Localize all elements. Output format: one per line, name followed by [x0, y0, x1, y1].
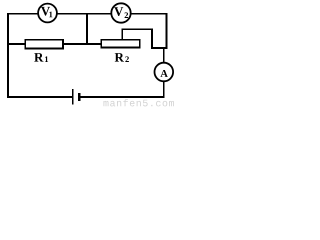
label R2: [115, 53, 124, 62]
wire right vertical top: [166, 13, 168, 49]
voltmeter U2 V2: [111, 3, 130, 22]
battery long plate: [72, 89, 74, 105]
wire left to R1: [8, 43, 25, 45]
wire left vertical: [7, 13, 9, 98]
label R1: [34, 53, 43, 62]
ammeter A: [155, 63, 174, 82]
battery short plate: [78, 93, 80, 101]
wire top-left from left edge to V1: [8, 13, 38, 15]
wire bottom left to battery: [8, 96, 72, 98]
wire ammeter to bottom: [163, 81, 165, 98]
watermark manfen5.com: [103, 99, 174, 106]
wire between V1 and V2: [57, 13, 111, 15]
wire middle junction vertical: [86, 14, 88, 44]
resistor R2 (rheostat): [101, 40, 140, 48]
wire battery to ammeter branch: [79, 96, 164, 98]
label A: [160, 70, 167, 77]
wire V2 to top-right corner: [131, 13, 167, 15]
wire R1 to R2: [63, 43, 101, 45]
wire rheostat wiper tap: [122, 29, 166, 48]
wire junction down to ammeter: [163, 48, 165, 63]
resistor R1: [25, 40, 63, 49]
label V2: [114, 7, 123, 16]
label V1: [41, 7, 50, 16]
voltmeter U1 V1: [38, 4, 57, 23]
